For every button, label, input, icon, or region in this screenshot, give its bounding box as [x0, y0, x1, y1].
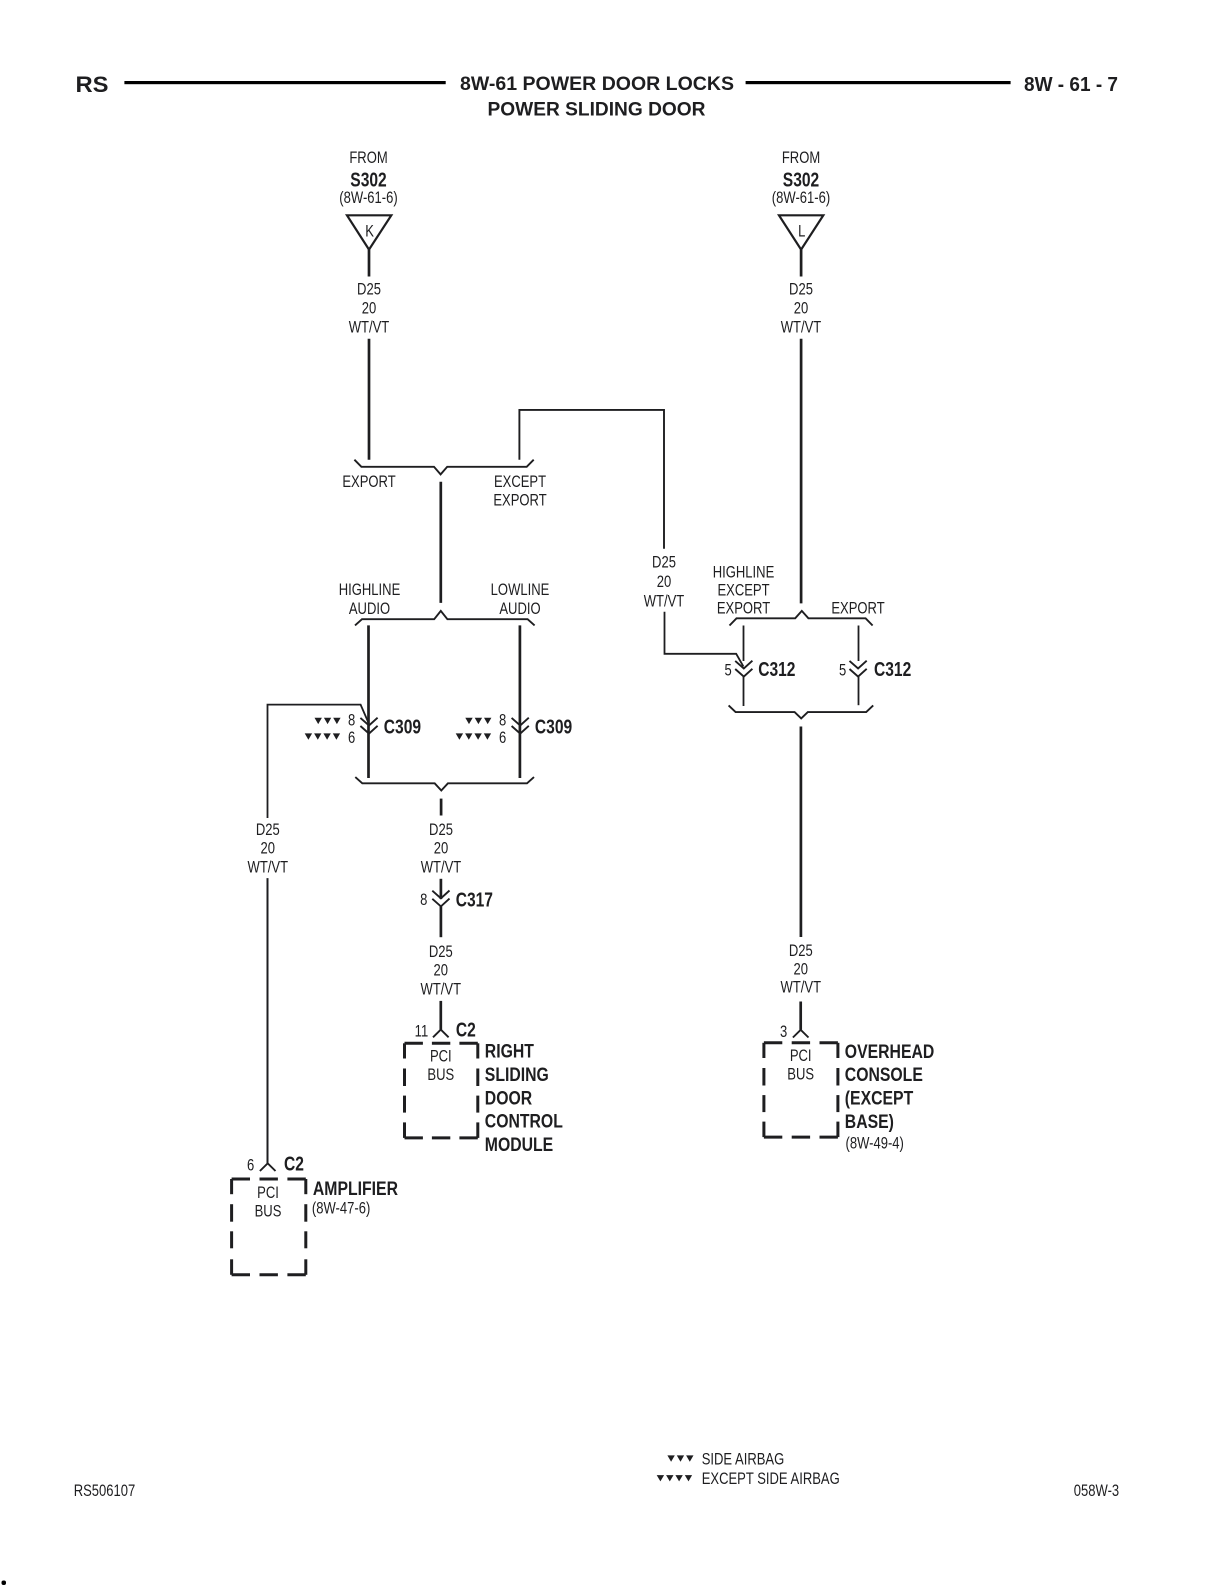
svg-text:DOOR: DOOR [485, 1087, 533, 1109]
svg-text:C317: C317 [456, 889, 493, 911]
wire C312 right to merge brace [858, 677, 860, 706]
svg-text:BUS: BUS [787, 1066, 814, 1084]
wire lowline audio to C309 [519, 625, 522, 778]
svg-text:5: 5 [839, 662, 846, 680]
connector C2 fork into amplifier [260, 1163, 276, 1171]
page corner mark [2, 1581, 7, 1585]
svg-text:C309: C309 [535, 716, 572, 738]
svg-text:WT/VT: WT/VT [644, 593, 685, 611]
connector C309 right symbol [512, 718, 529, 734]
svg-text:20: 20 [434, 840, 448, 858]
svg-text:EXCEPT: EXCEPT [494, 474, 546, 492]
svg-text:20: 20 [794, 961, 808, 979]
wire from export brace [439, 482, 442, 603]
connector C2 fork into RSDCM [433, 1030, 449, 1038]
brace combine export variants [354, 460, 533, 475]
wire from K [368, 250, 371, 277]
svg-text:MODULE: MODULE [485, 1134, 554, 1156]
svg-text:(8W-47-6): (8W-47-6) [312, 1200, 370, 1218]
brace merge C312 wires [729, 705, 874, 718]
wire to C312 splitter brace [800, 339, 803, 604]
svg-text:HIGHLINE: HIGHLINE [339, 582, 401, 600]
svg-text:20: 20 [657, 574, 671, 592]
svg-text:C2: C2 [456, 1019, 476, 1041]
svg-text:8: 8 [499, 712, 506, 730]
wire highline audio to C309 [367, 625, 370, 778]
svg-text:6: 6 [247, 1157, 254, 1175]
connector C309 left symbol [360, 718, 377, 734]
svg-text:EXCEPT SIDE AIRBAG: EXCEPT SIDE AIRBAG [702, 1471, 840, 1489]
svg-text:S302: S302 [350, 169, 386, 191]
svg-text:OVERHEAD: OVERHEAD [845, 1040, 935, 1062]
connector C312 right symbol [850, 661, 867, 677]
wire from L [800, 250, 803, 277]
wire to EXPORT brace [368, 339, 371, 460]
svg-text:D25: D25 [789, 943, 813, 961]
svg-text:POWER SLIDING DOOR: POWER SLIDING DOOR [488, 99, 706, 121]
svg-text:EXPORT: EXPORT [342, 474, 395, 492]
svg-text:WT/VT: WT/VT [248, 859, 289, 877]
svg-text:D25: D25 [429, 943, 453, 961]
svg-text:8: 8 [348, 712, 355, 730]
connector fork into overhead console [793, 1030, 809, 1038]
svg-text:D25: D25 [652, 554, 676, 572]
wire to C317 [440, 879, 443, 899]
wire to console C2 [799, 1002, 802, 1030]
connector C317 symbol [432, 891, 449, 907]
svg-text:SLIDING: SLIDING [485, 1063, 549, 1085]
svg-text:C312: C312 [874, 658, 911, 680]
wire from C312 merge to overhead console [800, 727, 803, 938]
svg-text:WT/VT: WT/VT [421, 859, 462, 877]
header rule left [124, 81, 445, 84]
wire C312 left to merge brace [743, 677, 745, 706]
header rule right [746, 81, 1011, 84]
svg-text:20: 20 [434, 962, 448, 980]
svg-text:(8W-61-6): (8W-61-6) [772, 190, 830, 208]
svg-text:BASE): BASE) [845, 1110, 894, 1132]
svg-text:EXPORT: EXPORT [493, 492, 546, 510]
svg-text:(8W-49-4): (8W-49-4) [846, 1135, 904, 1153]
svg-text:BUS: BUS [427, 1067, 454, 1085]
brace merge C309 wires [355, 777, 534, 790]
wire from C309 merge [440, 799, 443, 816]
brace split C312 variants [730, 611, 873, 626]
wire tap to amplifier [268, 705, 369, 818]
svg-text:S302: S302 [783, 169, 819, 191]
svg-text:3: 3 [780, 1024, 787, 1042]
wire elbow except-export feed [519, 410, 664, 549]
svg-text:(EXCEPT: (EXCEPT [845, 1087, 914, 1109]
svg-text:PCI: PCI [790, 1048, 812, 1066]
svg-text:11: 11 [415, 1023, 429, 1041]
side airbag marker (3 triangles) at C309 right pin 8 [465, 718, 491, 724]
svg-text:6: 6 [348, 730, 355, 748]
svg-text:LOWLINE: LOWLINE [491, 582, 550, 600]
wire brace to C312 left [743, 626, 745, 662]
svg-text:AMPLIFIER: AMPLIFIER [313, 1177, 398, 1199]
svg-text:C312: C312 [758, 658, 795, 680]
svg-text:FROM: FROM [782, 150, 820, 168]
svg-text:6: 6 [499, 730, 506, 748]
svg-text:20: 20 [362, 300, 376, 318]
svg-text:PCI: PCI [257, 1184, 279, 1202]
svg-text:RS: RS [76, 72, 109, 97]
legend marker except side airbag (4 triangles) [657, 1475, 692, 1481]
svg-text:D25: D25 [357, 281, 381, 299]
wire brace to C312 right [858, 626, 860, 662]
svg-text:WT/VT: WT/VT [421, 981, 462, 999]
svg-text:C309: C309 [384, 716, 421, 738]
module box amplifier (PCI BUS) [232, 1179, 306, 1275]
legend marker side airbag (3 triangles) [667, 1455, 693, 1461]
svg-text:WT/VT: WT/VT [781, 979, 822, 997]
svg-text:5: 5 [724, 662, 731, 680]
svg-text:RIGHT: RIGHT [485, 1040, 534, 1062]
module box right sliding door control module (PCI BUS) [405, 1043, 478, 1138]
svg-text:AUDIO: AUDIO [349, 600, 390, 618]
svg-text:20: 20 [794, 300, 808, 318]
svg-text:D25: D25 [429, 821, 453, 839]
side airbag marker (3 triangles) at C309 left pin 8 [315, 718, 341, 724]
svg-text:D25: D25 [256, 821, 280, 839]
off-page triangle connector K [347, 215, 391, 249]
svg-text:WT/VT: WT/VT [349, 319, 390, 337]
svg-text:8: 8 [420, 892, 427, 910]
except side airbag marker (4 triangles) at C309 right pin 6 [456, 733, 491, 739]
svg-text:058W-3: 058W-3 [1074, 1483, 1119, 1501]
wire to RSDCM C2 [439, 1001, 442, 1030]
svg-text:8W-61 POWER DOOR LOCKS: 8W-61 POWER DOOR LOCKS [460, 73, 734, 95]
svg-text:20: 20 [261, 840, 275, 858]
wire to amplifier C2 [267, 878, 269, 1163]
except side airbag marker (4 triangles) at C309 left pin 6 [305, 733, 340, 739]
wire elbow feeder to C312 left [665, 612, 744, 667]
svg-text:(8W-61-6): (8W-61-6) [339, 190, 397, 208]
svg-text:K: K [365, 223, 374, 241]
module box overhead console (PCI BUS) [764, 1043, 838, 1137]
svg-text:WT/VT: WT/VT [781, 319, 822, 337]
svg-text:L: L [798, 223, 805, 241]
svg-text:CONTROL: CONTROL [485, 1110, 563, 1132]
svg-text:RS506107: RS506107 [74, 1483, 136, 1501]
brace split audio variants [355, 611, 535, 626]
svg-text:SIDE AIRBAG: SIDE AIRBAG [702, 1451, 785, 1469]
svg-text:D25: D25 [789, 281, 813, 299]
svg-text:AUDIO: AUDIO [499, 600, 540, 618]
svg-text:EXCEPT: EXCEPT [717, 582, 769, 600]
svg-text:PCI: PCI [430, 1048, 452, 1066]
svg-text:EXPORT: EXPORT [717, 600, 770, 618]
svg-text:EXPORT: EXPORT [831, 600, 884, 618]
svg-text:CONSOLE: CONSOLE [845, 1064, 923, 1086]
svg-text:HIGHLINE: HIGHLINE [713, 564, 775, 582]
connector C312 left symbol [735, 661, 752, 677]
svg-text:C2: C2 [284, 1153, 304, 1175]
svg-text:FROM: FROM [349, 150, 387, 168]
wire from C317 [440, 906, 443, 937]
svg-text:8W - 61 - 7: 8W - 61 - 7 [1024, 74, 1118, 96]
svg-text:BUS: BUS [255, 1203, 282, 1221]
off-page triangle connector L [779, 215, 823, 249]
